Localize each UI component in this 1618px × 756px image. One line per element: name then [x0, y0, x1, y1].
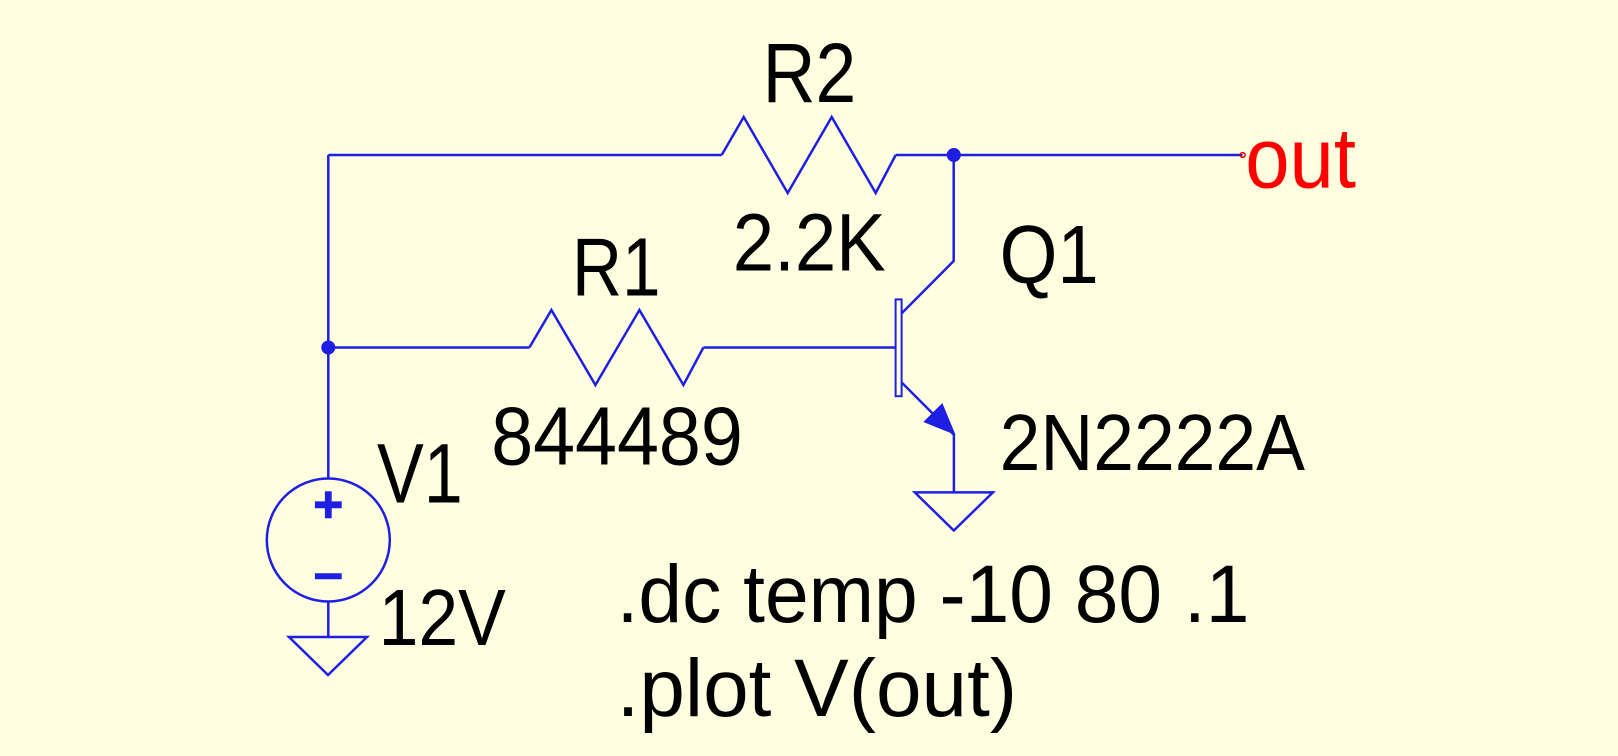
voltage source V1 — [267, 479, 390, 602]
wire top-left horizontal (V+ to R2 left) — [328, 154, 721, 157]
wire left vertical (top rail down to V1) — [327, 155, 330, 479]
wire V1 bottom to ground — [327, 602, 330, 638]
junction node at collector/R2/out — [947, 148, 961, 162]
svg-text:12V: 12V — [379, 573, 507, 662]
junction dot at V1/R1 node — [321, 341, 335, 355]
svg-text:.plot V(out): .plot V(out) — [617, 643, 1018, 734]
svg-text:out: out — [1245, 111, 1356, 206]
node out pin circle — [1240, 153, 1245, 158]
wire R2 right to out pin — [896, 154, 1243, 157]
svg-text:.dc temp -10 80 .1: .dc temp -10 80 .1 — [617, 549, 1250, 640]
svg-text:2N2222A: 2N2222A — [1000, 398, 1306, 487]
svg-text:844489: 844489 — [491, 390, 743, 483]
wire R1 right to Q1 base — [703, 346, 895, 349]
svg-text:Q1: Q1 — [1000, 209, 1099, 301]
resistor R2 — [722, 117, 896, 193]
svg-text:V1: V1 — [377, 427, 463, 521]
ground (V1 negative) — [289, 637, 367, 675]
svg-text:R1: R1 — [572, 220, 661, 313]
resistor R1 — [529, 310, 703, 385]
wire node to R1 left — [328, 346, 529, 349]
ground (emitter) — [915, 492, 993, 530]
svg-text:2.2K: 2.2K — [733, 198, 886, 289]
transistor Q1 — [896, 155, 954, 492]
svg-text:R2: R2 — [763, 26, 857, 120]
